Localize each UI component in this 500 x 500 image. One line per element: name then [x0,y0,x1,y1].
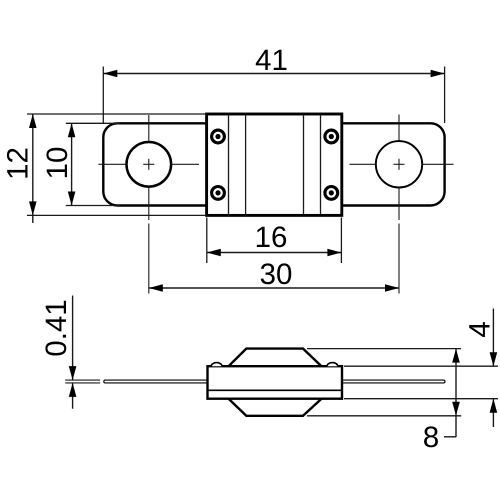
dimension 16 [207,218,342,264]
right bolt hole [376,141,422,187]
left terminal blade (side view) [104,380,209,383]
rivet top-right [325,130,338,143]
right mounting tab (top view) [341,123,445,205]
side view: extension line plate bottom [344,398,498,400]
left mounting tab (top view) [103,123,207,205]
side view: extension line housing bottom [307,415,461,417]
housing top (side view) [229,349,322,367]
metal plate (side view) [208,366,343,399]
right hole centerline vertical [398,115,400,141]
right hole centerline horizontal [350,163,376,165]
dimension 41 [103,50,444,123]
dimension 30 [149,263,399,291]
body interior line 1 [228,116,230,215]
housing bottom (side view) [229,399,322,416]
left bolt hole [127,142,172,187]
dimension 10 [46,123,120,205]
fuse body (top view) [207,114,342,215]
plate inner line [209,389,342,391]
side view: extension line plate top [344,365,498,367]
body interior line 2 [245,116,247,215]
dimension 4 [469,309,497,428]
right terminal blade (side view) [341,380,445,383]
dimension 12 [7,114,207,223]
left rivet bump (side view) [211,363,222,367]
rivet bottom-right [325,187,338,200]
dimension 8 [424,349,460,448]
body interior line 4 [320,116,322,215]
left hole centerline vertical [148,115,150,142]
body interior line 3 [303,116,305,215]
dimension 0.41 [45,296,100,409]
left hole centerline horizontal [99,163,127,165]
side view: extension line housing top [307,348,461,350]
right rivet bump (side view) [327,363,338,367]
left hole extension line to 30 dim [148,224,150,294]
rivet bottom-left [212,187,225,200]
rivet top-left [212,130,225,143]
right hole extension line to 30 dim [398,224,400,294]
